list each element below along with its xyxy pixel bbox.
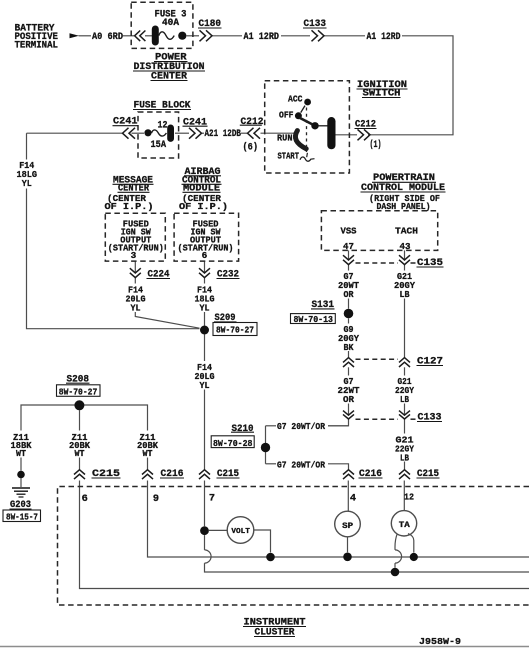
svg-text:6: 6 [82,493,88,505]
svg-text:S131: S131 [312,300,335,311]
svg-text:LB: LB [400,394,409,405]
svg-text:8W-70-27: 8W-70-27 [216,325,254,336]
svg-text:VOLT: VOLT [231,528,250,536]
svg-text:47: 47 [343,241,354,252]
svg-text:12: 12 [404,493,414,503]
svg-text:OR: OR [343,394,354,405]
svg-text:OFF: OFF [279,110,294,121]
svg-text:C241: C241 [183,118,207,129]
svg-text:(6): (6) [243,142,259,154]
svg-text:YL: YL [131,302,141,313]
svg-text:YL: YL [200,380,210,391]
svg-text:A1 12RD: A1 12RD [244,32,280,43]
svg-text:S208: S208 [67,375,90,386]
svg-text:START: START [278,151,300,162]
svg-text:TACH: TACH [395,226,418,237]
svg-text:6: 6 [202,250,208,261]
svg-text:DASH PANEL): DASH PANEL) [377,201,431,212]
svg-text:OF I.P.): OF I.P.) [179,201,228,212]
svg-text:LB: LB [400,453,409,464]
svg-text:TERMINAL: TERMINAL [15,41,59,52]
svg-text:SP: SP [342,522,353,531]
svg-text:8W-70-28: 8W-70-28 [213,438,253,449]
svg-text:BK: BK [344,342,354,353]
svg-text:12: 12 [158,120,168,131]
svg-text:G7 20WT/OR: G7 20WT/OR [277,421,325,432]
svg-text:9: 9 [153,493,159,505]
svg-text:WT: WT [75,448,85,459]
svg-text:ACC: ACC [288,94,303,105]
svg-text:OR: OR [344,289,354,300]
svg-text:7: 7 [209,493,215,505]
svg-text:RUN: RUN [277,133,293,144]
svg-text:8W-15-7: 8W-15-7 [6,512,38,523]
svg-text:15A: 15A [151,140,167,151]
svg-text:G7 20WT/OR: G7 20WT/OR [277,459,325,470]
svg-text:A1 12RD: A1 12RD [367,32,401,43]
svg-text:A21 12DB: A21 12DB [205,129,242,140]
svg-text:TA: TA [399,521,410,530]
svg-text:WT: WT [143,448,153,459]
svg-text:C212: C212 [241,117,264,128]
svg-text:43: 43 [400,241,411,252]
svg-text:(1): (1) [370,139,382,151]
svg-text:3: 3 [131,250,137,261]
svg-text:WT: WT [16,448,26,459]
svg-text:J958W-9: J958W-9 [419,636,461,647]
svg-text:YL: YL [200,302,210,313]
svg-text:8W-70-13: 8W-70-13 [294,314,334,325]
svg-text:A0 6RD: A0 6RD [92,32,123,43]
svg-text:S210: S210 [232,424,254,435]
svg-text:VSS: VSS [341,226,357,237]
svg-text:LB: LB [400,289,410,300]
svg-text:OF I.P.): OF I.P.) [105,201,154,212]
svg-text:40A: 40A [162,18,179,29]
svg-text:8W-70-27: 8W-70-27 [59,386,98,397]
svg-text:YL: YL [22,178,32,189]
svg-text:4: 4 [350,493,356,505]
